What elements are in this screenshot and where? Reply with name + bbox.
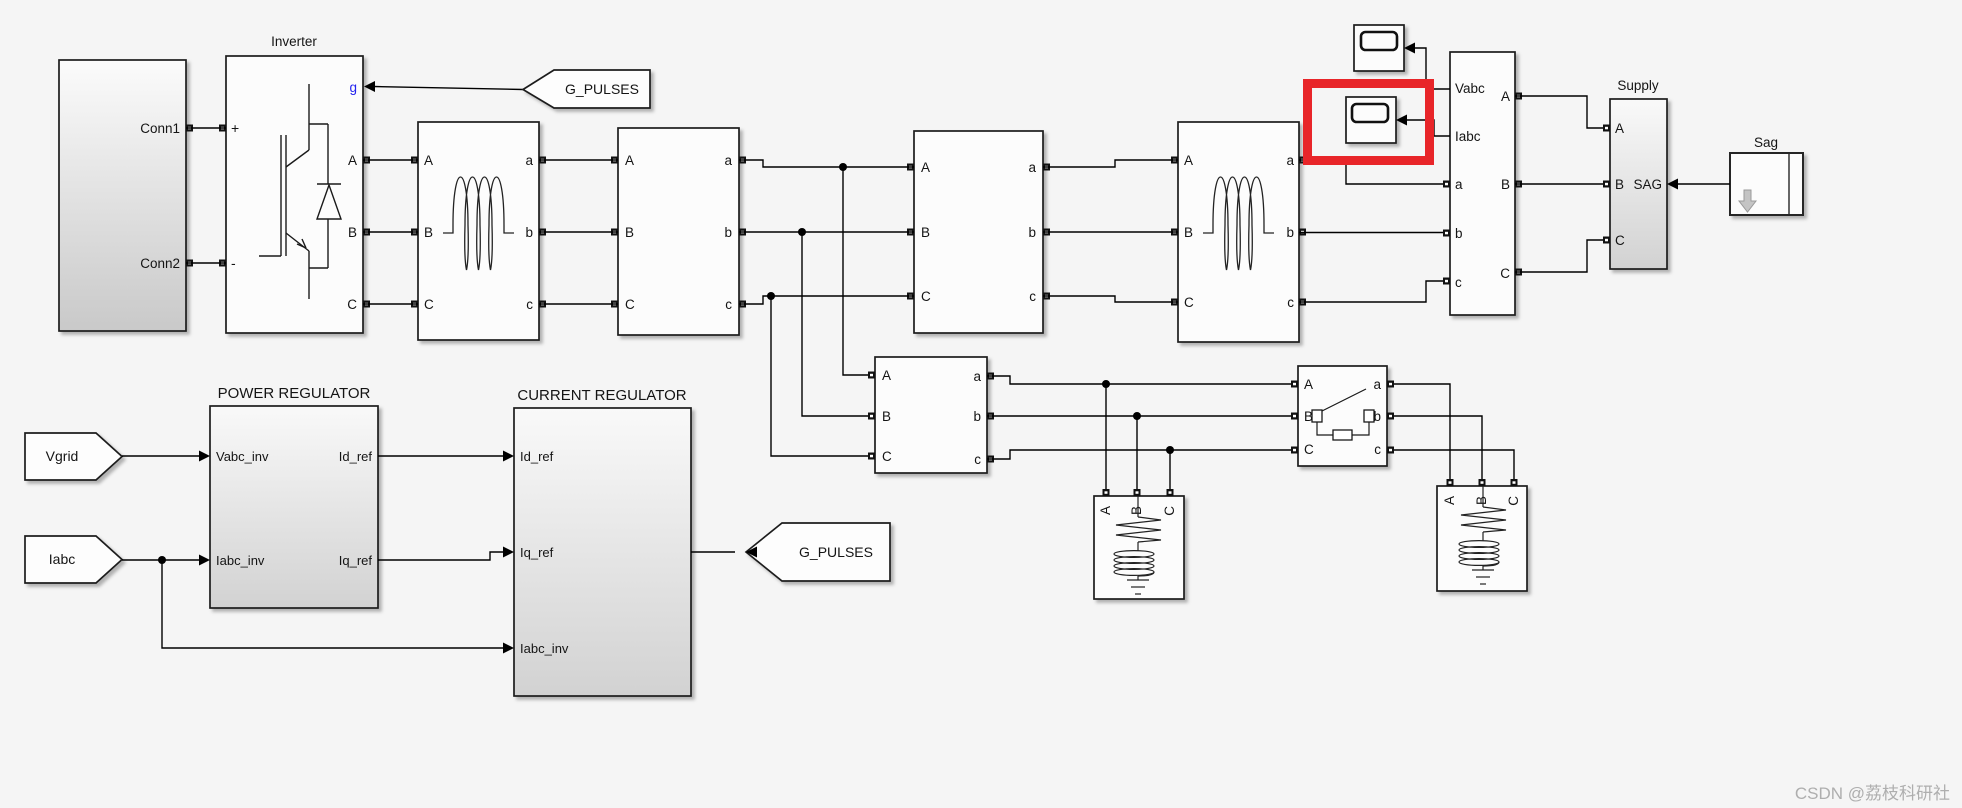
- svg-text:POWER REGULATOR: POWER REGULATOR: [218, 385, 371, 402]
- inductor coil icon L2: [1203, 177, 1274, 270]
- svg-text:c: c: [1029, 289, 1036, 304]
- svg-text:A: A: [625, 153, 634, 168]
- wire V-I A to Supply A: [1515, 96, 1603, 128]
- wire Conn2 to -: [186, 262, 226, 264]
- svg-text:Iabc: Iabc: [1455, 129, 1481, 144]
- wire breaker b to load2 B: [1394, 416, 1482, 479]
- wire load subsystem a to breaker A (net a3): [987, 376, 1291, 384]
- svg-text:Conn1: Conn1: [140, 121, 180, 136]
- svg-text:C: C: [1615, 233, 1625, 248]
- svg-text:C: C: [1500, 266, 1510, 281]
- wire filter c to transformer C: [539, 303, 618, 305]
- svg-text:B: B: [1501, 177, 1510, 192]
- wire branch b2 down to load subsystem B: [802, 232, 868, 416]
- wire G_PULSES to g: [374, 87, 523, 90]
- svg-text:Sag: Sag: [1754, 135, 1778, 150]
- svg-text:a: a: [1286, 153, 1294, 168]
- svg-text:A: A: [882, 368, 891, 383]
- svg-text:b: b: [1028, 225, 1036, 240]
- svg-text:A: A: [1304, 377, 1313, 392]
- svg-text:C: C: [1506, 496, 1521, 506]
- wire inverter B to filter B: [363, 231, 418, 233]
- svg-text:G_PULSES: G_PULSES: [565, 81, 639, 97]
- svg-text:c: c: [1287, 295, 1294, 310]
- wire filter2 a to V-I a (passes under red marker): [1299, 160, 1443, 184]
- wire measurement b to filter2 B: [1043, 231, 1178, 233]
- wire Conn1 to +: [186, 127, 226, 129]
- port + (inverter): [219, 125, 226, 132]
- tag input Vgrid: [25, 433, 122, 480]
- wire filter b to transformer B: [539, 231, 618, 233]
- svg-text:B: B: [625, 225, 634, 240]
- svg-text:C: C: [882, 449, 892, 464]
- arrowhead Vabc_inv input: [199, 451, 210, 462]
- svg-text:c: c: [974, 452, 981, 467]
- svg-text:c: c: [526, 297, 533, 312]
- ports of load 1: [1103, 489, 1174, 496]
- block L-filter 1 (three-phase series RLC branch): [418, 122, 539, 340]
- wire Iabc to Iabc_inv (power regulator): [122, 559, 199, 561]
- ports of L-filter 2: [1171, 157, 1306, 306]
- arrowhead Id_ref input: [503, 451, 514, 462]
- ports of L-filter 1: [411, 157, 546, 308]
- block transformer 1 (A B C / a b c): [618, 128, 739, 335]
- junction node b3: [1133, 412, 1141, 420]
- svg-text:B: B: [1184, 225, 1193, 240]
- svg-text:A: A: [1615, 121, 1624, 136]
- subsystem block DC source (Conn1/Conn2): [59, 60, 186, 331]
- wire breaker a to load2 A: [1394, 384, 1450, 479]
- svg-text:Vabc: Vabc: [1455, 81, 1485, 96]
- wire transformer a to measurement A (net a2): [739, 160, 914, 167]
- wire Iq_ref to Iq_ref: [378, 552, 503, 560]
- block measurement 1 (A B C / a b c): [914, 131, 1043, 333]
- wire breaker c to load2 C: [1394, 450, 1514, 479]
- wire filter2 c to V-I c: [1299, 281, 1443, 302]
- junction node c2: [767, 292, 775, 300]
- arrowhead Scope1 input: [1404, 43, 1415, 54]
- svg-text:Conn2: Conn2: [140, 256, 180, 271]
- wire filter a to transformer A: [539, 159, 618, 161]
- svg-text:B: B: [1129, 506, 1144, 515]
- arrowhead Iabc_inv input: [199, 555, 210, 566]
- wire transformer c to measurement C (net c2): [739, 296, 914, 304]
- svg-text:B: B: [1474, 496, 1489, 505]
- port - (inverter): [219, 260, 226, 267]
- svg-text:B: B: [348, 225, 357, 240]
- svg-text:c: c: [1455, 275, 1462, 290]
- svg-text:a: a: [525, 153, 533, 168]
- tag From G_PULSES: [523, 70, 650, 108]
- svg-text:B: B: [882, 409, 891, 424]
- port Conn2: [186, 260, 193, 267]
- IGBT/diode icon inside inverter: [259, 84, 341, 299]
- svg-text:CSDN @荔枝科研社: CSDN @荔枝科研社: [1795, 784, 1950, 803]
- svg-text:a: a: [1373, 377, 1381, 392]
- wire inverter C to filter C: [363, 303, 418, 305]
- svg-text:C: C: [347, 297, 357, 312]
- port Conn1: [186, 125, 193, 132]
- svg-text:+: +: [231, 120, 239, 136]
- svg-text:C: C: [1162, 506, 1177, 516]
- svg-text:B: B: [1615, 177, 1624, 192]
- subsystem block Inverter U1: [226, 56, 363, 333]
- wire measurement a to filter2 A: [1043, 160, 1178, 167]
- svg-text:c: c: [725, 297, 732, 312]
- svg-text:Iq_ref: Iq_ref: [339, 553, 373, 568]
- wire branch b3 down to load1 B: [1136, 416, 1138, 489]
- svg-text:c: c: [1374, 442, 1381, 457]
- svg-text:Supply: Supply: [1617, 78, 1659, 93]
- svg-text:C: C: [921, 289, 931, 304]
- svg-text:Vgrid: Vgrid: [46, 448, 79, 464]
- wire branch a2 down to load subsystem A: [843, 167, 868, 375]
- svg-text:Inverter: Inverter: [271, 34, 317, 49]
- svg-text:Iabc_inv: Iabc_inv: [520, 641, 569, 656]
- breaker switch icon: [1312, 389, 1374, 440]
- svg-text:B: B: [921, 225, 930, 240]
- block L-filter 2 (three-phase series RLC branch): [1178, 122, 1299, 342]
- inductor coil icon L1: [443, 177, 514, 270]
- scope block Scope1: [1354, 25, 1404, 71]
- RLC icon load 1: [1114, 496, 1161, 594]
- wire current regulator output to G_PULSES goto: [691, 551, 735, 553]
- ports of measurement 1: [907, 164, 1050, 300]
- wire Iabc to Scope2: [1406, 120, 1450, 136]
- wire Id_ref to Id_ref: [378, 455, 503, 457]
- arrowhead SAG input: [1667, 179, 1678, 190]
- wire Vgrid to Vabc_inv: [122, 455, 199, 457]
- svg-text:SAG: SAG: [1633, 177, 1662, 192]
- svg-text:G_PULSES: G_PULSES: [799, 544, 873, 560]
- source block Sag (signal builder): [1730, 153, 1803, 215]
- svg-text:A: A: [1442, 496, 1457, 505]
- ports of breaker: [1291, 381, 1394, 454]
- port A (inverter): [363, 157, 370, 164]
- ports of Supply: [1603, 125, 1610, 244]
- svg-text:C: C: [424, 297, 434, 312]
- block three-phase breaker: [1298, 366, 1387, 466]
- arrowhead g input: [364, 81, 375, 92]
- wire load subsystem b to breaker B (net b3): [987, 415, 1291, 417]
- wire branch a3 down to load1 A: [1105, 384, 1107, 489]
- svg-text:Iabc: Iabc: [49, 551, 75, 567]
- svg-text:b: b: [973, 409, 981, 424]
- arrowhead at goto tag: [746, 547, 757, 558]
- svg-text:b: b: [525, 225, 533, 240]
- svg-text:Iq_ref: Iq_ref: [520, 545, 554, 560]
- svg-text:b: b: [1455, 226, 1463, 241]
- svg-text:A: A: [1098, 506, 1113, 515]
- svg-text:C: C: [1304, 442, 1314, 457]
- wire Sag to Supply SAG: [1677, 183, 1730, 185]
- wire filter2 b to V-I b: [1299, 232, 1443, 234]
- subsystem block POWER REGULATOR: [210, 406, 378, 608]
- svg-text:CURRENT REGULATOR: CURRENT REGULATOR: [517, 387, 686, 404]
- wire inverter A to filter A: [363, 159, 418, 161]
- subsystem block CURRENT REGULATOR: [514, 408, 691, 696]
- junction node b2: [798, 228, 806, 236]
- tag input Iabc: [25, 536, 122, 583]
- ports of load subsystem: [868, 372, 994, 463]
- scope block Scope2: [1346, 97, 1396, 143]
- wire V-I B to Supply B: [1515, 183, 1603, 185]
- RLC icon load 2: [1459, 486, 1506, 584]
- port B (inverter): [363, 229, 370, 236]
- wire Iabc branch to current regulator Iabc_inv: [162, 560, 503, 648]
- wire Vabc to Scope1: [1414, 48, 1450, 89]
- svg-text:a: a: [1455, 177, 1463, 192]
- svg-text:C: C: [625, 297, 635, 312]
- wire measurement c to filter2 C: [1043, 296, 1178, 302]
- svg-text:b: b: [1286, 225, 1294, 240]
- block load subsystem (A B C / a b c): [875, 357, 987, 473]
- svg-text:A: A: [921, 160, 930, 175]
- ports of transformer 1: [611, 157, 746, 308]
- arrowhead Iq_ref input: [503, 547, 514, 558]
- svg-text:-: -: [231, 255, 236, 271]
- block three-phase V-I measurement (Vabc/Iabc): [1450, 52, 1515, 315]
- svg-text:g: g: [349, 80, 357, 95]
- block three-phase series RLC load 2: [1437, 486, 1527, 591]
- ports of load 2: [1447, 479, 1518, 486]
- ports of V-I measurement: [1443, 93, 1522, 285]
- red highlight marker rectangle: [1308, 84, 1430, 161]
- svg-text:a: a: [724, 153, 732, 168]
- wire transformer b to measurement B (net b2): [739, 231, 914, 233]
- port C (inverter): [363, 301, 370, 308]
- junction node a3: [1102, 380, 1110, 388]
- svg-text:b: b: [724, 225, 732, 240]
- svg-text:A: A: [1184, 153, 1193, 168]
- junction node Iabc: [158, 556, 166, 564]
- subsystem block Supply: [1610, 99, 1667, 269]
- svg-text:a: a: [1028, 160, 1036, 175]
- svg-text:B: B: [424, 225, 433, 240]
- arrowhead Scope2 input: [1396, 115, 1407, 126]
- tag Goto G_PULSES: [746, 523, 890, 581]
- svg-text:Iabc_inv: Iabc_inv: [216, 553, 265, 568]
- svg-text:A: A: [1501, 89, 1510, 104]
- wire branch c2 down to load subsystem C: [771, 296, 868, 456]
- wire load subsystem c to breaker C (net c3): [987, 450, 1291, 459]
- junction node c3: [1166, 446, 1174, 454]
- wire V-I C to Supply C: [1515, 240, 1603, 272]
- svg-text:Id_ref: Id_ref: [339, 449, 373, 464]
- svg-text:C: C: [1184, 295, 1194, 310]
- svg-text:Vabc_inv: Vabc_inv: [216, 449, 269, 464]
- wire branch c3 down to load1 C: [1169, 450, 1171, 489]
- arrowhead Iabc_inv input: [503, 643, 514, 654]
- block three-phase series RLC load 1: [1094, 496, 1184, 599]
- junction node a2: [839, 163, 847, 171]
- svg-text:a: a: [973, 369, 981, 384]
- svg-text:A: A: [348, 153, 357, 168]
- svg-text:A: A: [424, 153, 433, 168]
- svg-text:Id_ref: Id_ref: [520, 449, 554, 464]
